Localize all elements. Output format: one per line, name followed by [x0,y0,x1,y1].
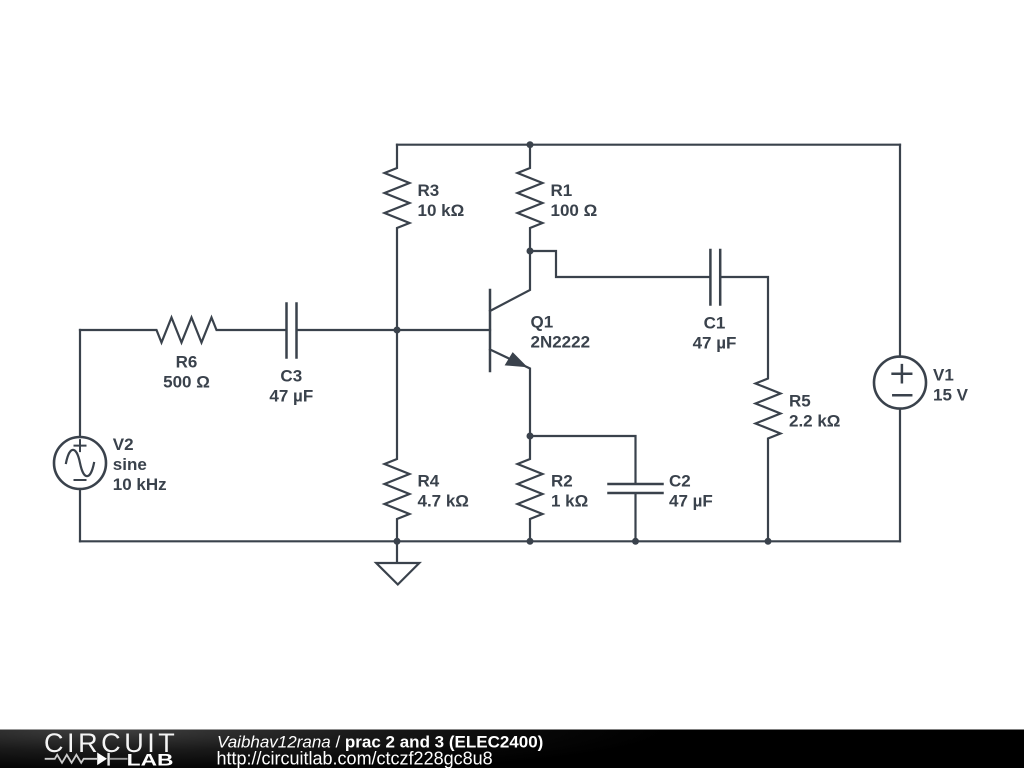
svg-text:47 µF: 47 µF [693,334,737,353]
svg-text:V2: V2 [113,435,134,454]
svg-text:LAB: LAB [127,751,174,768]
svg-text:Q1: Q1 [531,313,554,332]
svg-text:R1: R1 [551,181,573,200]
svg-text:4.7 kΩ: 4.7 kΩ [418,492,469,511]
svg-text:47 µF: 47 µF [669,492,713,511]
svg-text:C2: C2 [669,472,691,491]
svg-text:V1: V1 [933,366,954,385]
svg-text:C1: C1 [704,314,726,333]
svg-text:15 V: 15 V [933,386,969,405]
svg-text:10 kΩ: 10 kΩ [418,201,465,220]
svg-text:R4: R4 [418,472,440,491]
svg-text:C3: C3 [280,367,302,386]
svg-text:http://circuitlab.com/ctczf228: http://circuitlab.com/ctczf228gc8u8 [217,749,493,768]
svg-text:47 µF: 47 µF [269,387,313,406]
svg-text:2.2 kΩ: 2.2 kΩ [789,412,840,431]
svg-text:100 Ω: 100 Ω [551,201,598,220]
svg-text:500 Ω: 500 Ω [163,373,210,392]
svg-text:2N2222: 2N2222 [531,333,591,352]
svg-text:sine: sine [113,455,147,474]
svg-text:R2: R2 [551,472,573,491]
svg-text:R6: R6 [176,353,198,372]
svg-text:1 kΩ: 1 kΩ [551,492,588,511]
svg-text:R3: R3 [418,181,440,200]
svg-text:R5: R5 [789,392,811,411]
svg-text:10 kHz: 10 kHz [113,475,167,494]
